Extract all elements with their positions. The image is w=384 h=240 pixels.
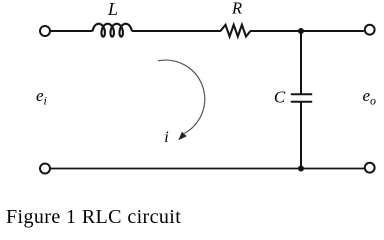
svg-text:eo: eo xyxy=(363,86,377,108)
svg-text:R: R xyxy=(231,0,242,17)
svg-text:L: L xyxy=(107,0,118,19)
svg-text:Figure 1 RLC circuit: Figure 1 RLC circuit xyxy=(6,206,181,228)
svg-text:i: i xyxy=(164,129,168,146)
svg-text:ei: ei xyxy=(36,86,47,108)
svg-text:C: C xyxy=(274,88,286,107)
